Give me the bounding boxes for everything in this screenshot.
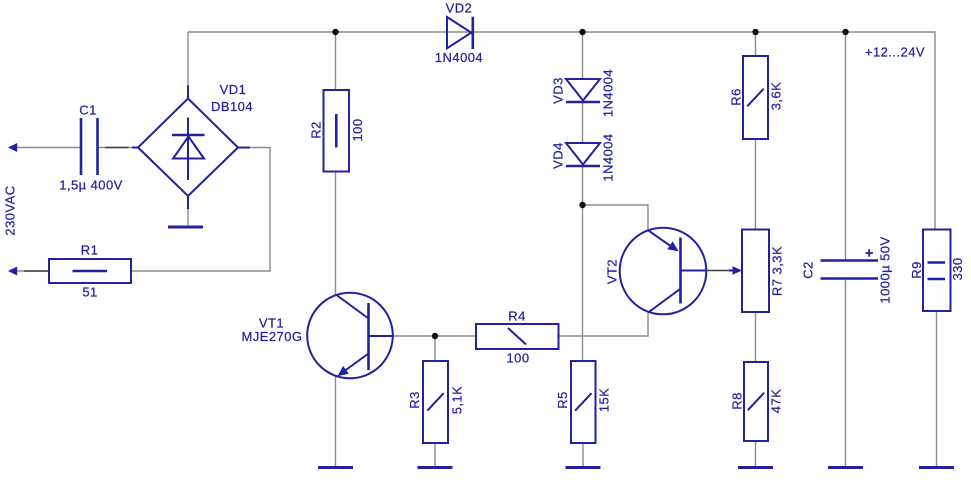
- svg-text:R8: R8: [730, 392, 745, 410]
- svg-text:R1: R1: [81, 243, 99, 258]
- svg-text:3,6K: 3,6K: [769, 82, 784, 111]
- svg-text:1N4004: 1N4004: [601, 69, 616, 117]
- svg-text:R6: R6: [729, 88, 744, 106]
- svg-text:R5: R5: [555, 391, 570, 409]
- svg-text:DB104: DB104: [211, 99, 253, 114]
- svg-text:47K: 47K: [769, 389, 784, 413]
- svg-text:VT2: VT2: [605, 259, 620, 284]
- svg-text:C1: C1: [79, 103, 97, 118]
- svg-text:1N4004: 1N4004: [435, 50, 483, 65]
- svg-text:R9: R9: [909, 261, 924, 279]
- svg-text:VD2: VD2: [446, 1, 473, 16]
- svg-text:R7 3,3K: R7 3,3K: [770, 246, 785, 296]
- svg-text:R4: R4: [508, 309, 526, 324]
- svg-text:+12...24V: +12...24V: [865, 45, 925, 60]
- svg-text:MJE270G: MJE270G: [242, 329, 303, 344]
- svg-text:100: 100: [350, 118, 365, 141]
- svg-text:VD3: VD3: [551, 77, 566, 104]
- svg-text:230VAC: 230VAC: [3, 185, 18, 235]
- svg-text:15K: 15K: [597, 388, 612, 412]
- svg-text:R3: R3: [407, 391, 422, 409]
- svg-text:51: 51: [82, 285, 97, 300]
- svg-text:330: 330: [950, 257, 965, 280]
- svg-text:100: 100: [506, 351, 529, 366]
- svg-text:1N4004: 1N4004: [601, 133, 616, 181]
- svg-text:R2: R2: [309, 121, 324, 139]
- svg-text:1000µ 50V: 1000µ 50V: [878, 236, 893, 303]
- svg-text:5,1K: 5,1K: [450, 386, 465, 415]
- svg-text:VD1: VD1: [220, 82, 247, 97]
- svg-text:C2: C2: [801, 261, 816, 279]
- svg-text:1,5µ 400V: 1,5µ 400V: [59, 178, 123, 193]
- svg-text:VD4: VD4: [551, 142, 566, 169]
